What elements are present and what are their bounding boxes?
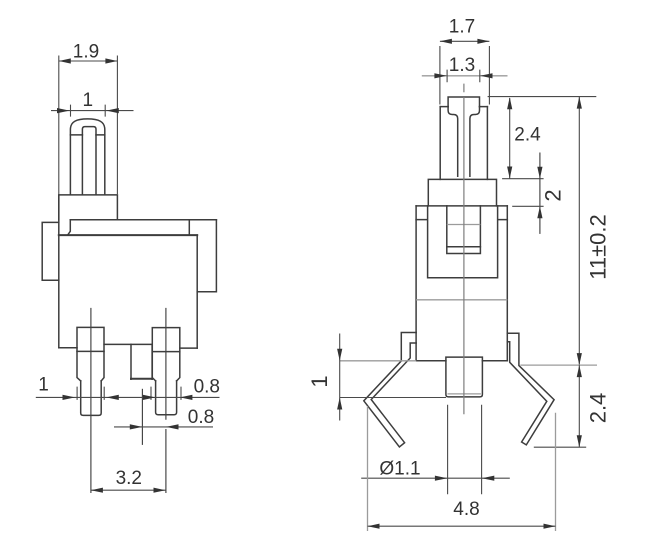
right view: plunger cap (1.3 wide) (448, 97, 479, 107)
left view: middle block centerline (141, 389, 143, 445)
dimension 1.3 arrows (434, 73, 492, 78)
dimension 4.8 arrows (368, 524, 556, 529)
right view: upper housing (428, 179, 496, 206)
svg-text:1: 1 (38, 375, 49, 396)
left view: right pin tip (156, 381, 177, 415)
dimension 1.7 arrows (440, 39, 490, 44)
right view: body bottom segments (416, 360, 507, 362)
dimension 4.8 line (368, 525, 556, 527)
dimension 3.2 line (91, 489, 166, 491)
dimension 0.8 (first) arrows (143, 395, 193, 400)
svg-text:1: 1 (307, 375, 332, 387)
dimension 1.9 arrows (59, 58, 118, 63)
svg-text:2: 2 (541, 189, 566, 201)
dimension 2.4 (upper) arrows (507, 97, 512, 178)
left view: left pin internal line (77, 350, 104, 352)
reference line mounting plane (520, 364, 597, 366)
svg-text:11±0.2: 11±0.2 (586, 214, 611, 280)
left view: top plate divider (188, 220, 190, 235)
right view: left support leg (364, 333, 416, 447)
dimension 11±0.2 arrows (577, 97, 582, 366)
left view: right pin centerline (165, 308, 167, 493)
reference line body top step (512, 205, 543, 207)
svg-text:2.4: 2.4 (514, 125, 541, 146)
dimension 2.4 (lower) arrows (577, 365, 582, 447)
dimension 2 arrows (537, 167, 542, 219)
left view: right pin internal line (152, 351, 180, 353)
right view: center pin (446, 357, 483, 397)
left view: plunger outer dome (70, 119, 104, 195)
svg-text:4.8: 4.8 (453, 499, 479, 520)
right view: small center box (447, 206, 481, 254)
right view: main body sides (416, 206, 507, 361)
dimension Ø1.1 line (361, 477, 510, 479)
dimension 11±0.2 line (578, 97, 580, 366)
dimension Ø1.1 extension lines (448, 405, 482, 495)
left view: right pin wide part (152, 328, 180, 381)
left view: left pin centerline (90, 308, 92, 493)
dimension 0.8 (second) line (114, 426, 213, 428)
svg-text:1.3: 1.3 (449, 55, 475, 76)
left view: left pin wide part (77, 327, 104, 381)
dimension 4.8 extension lines (368, 406, 556, 531)
reference line housing top (502, 178, 543, 180)
top reference line (plunger top) (488, 96, 597, 98)
dimension 1.7 extension lines (440, 46, 490, 105)
left view: body left edge (58, 195, 60, 348)
left view: body top edge (thick) (59, 234, 197, 236)
svg-text:3.2: 3.2 (116, 468, 142, 489)
svg-text:2.4: 2.4 (586, 393, 611, 424)
left view: plunger inner stem (82, 127, 96, 195)
right view: plunger shoulders (440, 106, 487, 108)
dimension 1.3 line (422, 75, 508, 77)
dimension 1.9 right extension line (59, 56, 118, 195)
dimension 1 (plunger) arrows (57, 108, 119, 113)
dimension 2.4 (lower) line (578, 365, 580, 447)
right view: right support leg (507, 333, 554, 445)
right view: main body top (416, 205, 507, 207)
left view: body right edge (196, 235, 198, 348)
dimension 1.7 line (440, 40, 490, 42)
dimension Ø1.1 arrows (435, 476, 494, 481)
dimension 1 (leg) arrows (337, 349, 342, 410)
left view: middle block (131, 344, 152, 379)
dimension 1 (plunger) line (51, 110, 134, 112)
reference line leg tips (534, 446, 586, 448)
svg-text:1.9: 1.9 (73, 42, 99, 63)
right view: inner box (428, 206, 498, 278)
left view: left pin tip (81, 381, 102, 416)
dimension 2.4 (upper) line (509, 98, 511, 179)
dimension 1.3 extension ticks (447, 70, 480, 83)
dimension 1 (leg) line (339, 334, 341, 421)
dimension 1.9 line (59, 60, 118, 62)
svg-text:Ø1.1: Ø1.1 (379, 459, 420, 480)
dimension 1 (pin) arrows (63, 395, 119, 400)
left view: top plate top edge (70, 219, 216, 221)
dimension 0.8 (second) arrows (130, 424, 179, 429)
left view: right pin extension ticks (151, 387, 181, 400)
svg-text:0.8: 0.8 (194, 377, 220, 398)
right view: plunger outer sides (1.7 wide) (440, 107, 487, 180)
left view: plunger shoulder lines (70, 134, 104, 136)
svg-text:1: 1 (83, 90, 94, 111)
right view: center pin inner gray line (448, 393, 481, 395)
right view: small box internal lines (447, 224, 481, 226)
left view: right side tab (197, 220, 216, 292)
dimension 1 (leg) upper reference line (340, 360, 417, 362)
right view: corner notches (416, 219, 507, 221)
dimension 1 (plunger) extension ticks (71, 105, 106, 117)
dimension 2 line (539, 153, 541, 234)
left view: body bottom segments (59, 344, 197, 348)
right view: body seam line (416, 299, 507, 301)
dimension 1 (leg) lower reference line (340, 397, 446, 399)
left view: top plate left notch (68, 220, 71, 235)
left view: left pin extension ticks (77, 387, 104, 400)
left view: step block under plunger (59, 195, 118, 220)
dimension line through pins (1 and 0.8) (36, 396, 220, 398)
right view: vertical centerline (463, 84, 465, 415)
left view: middle block bottom (thick) (131, 378, 152, 380)
right view: plunger T-stem (448, 107, 479, 177)
svg-text:0.8: 0.8 (188, 407, 214, 428)
dimension 3.2 arrows (91, 488, 166, 493)
svg-text:1.7: 1.7 (449, 17, 475, 38)
left view: left side tab (42, 222, 59, 280)
